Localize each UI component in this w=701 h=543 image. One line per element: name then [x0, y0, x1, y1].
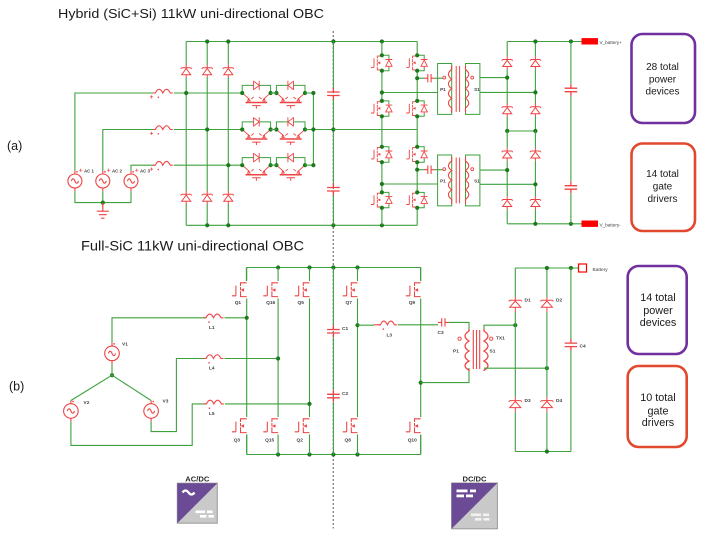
svg-text:14 total: 14 total — [646, 169, 679, 180]
dashed stage divider line — [332, 31, 334, 529]
svg-text:C2: C2 — [342, 391, 348, 397]
diode D4 — [540, 397, 553, 412]
capacitor C3 — [438, 318, 449, 326]
node top bus junctions b — [276, 265, 360, 269]
wire leg Q9/Q10 — [420, 268, 422, 455]
capacitor C1 — [327, 326, 340, 338]
transistor Q1 — [232, 283, 247, 297]
diode output B bottom — [530, 104, 541, 117]
wire output bottom bus b — [515, 451, 571, 453]
svg-text:C1: C1 — [342, 326, 348, 332]
svg-text:gate: gate — [653, 182, 673, 193]
node cell branch junctions — [380, 76, 420, 95]
transistor cell high-side right — [406, 56, 417, 70]
svg-text:Q5: Q5 — [298, 300, 305, 306]
wire phase C to modules — [174, 164, 242, 166]
capacitor DC link upper — [327, 88, 340, 100]
capacitor C2 — [327, 390, 340, 402]
wire rectifier leg 3 — [227, 42, 229, 226]
wire battery top bus — [515, 267, 578, 269]
wire top DC bus — [186, 41, 417, 43]
node bottom bus junctions — [205, 223, 384, 227]
wire DC midpoint rail — [333, 129, 417, 131]
transistor Q5 — [295, 283, 310, 297]
svg-text:L4: L4 — [209, 366, 215, 372]
wire rectifier leg 2 — [206, 42, 208, 226]
wire secondary top connection — [480, 77, 507, 79]
wire C4 leg — [570, 268, 572, 452]
annotation box 14 total gate drivers — [632, 144, 696, 232]
ac source AC 1 — [68, 171, 82, 192]
svg-text:AC 1: AC 1 — [84, 169, 95, 174]
node top bus junctions — [205, 39, 384, 43]
wire leg Q16/Q15 — [277, 268, 279, 455]
svg-text:Q1: Q1 — [235, 300, 242, 306]
transformer cell2 P1 S1 — [438, 155, 452, 206]
svg-text:D4: D4 — [556, 398, 562, 404]
svg-text:14 total: 14 total — [640, 292, 675, 304]
wire section-b bottom bus — [247, 435, 421, 455]
wire rect mid rail — [507, 130, 535, 132]
svg-text:V2: V2 — [84, 400, 90, 406]
node battery- junctions — [533, 222, 573, 226]
wire secondary bottom connection — [480, 183, 536, 185]
wire module outputs to DC midpoint — [305, 93, 333, 165]
inductor L4 — [204, 355, 224, 359]
capacitor DC link lower — [327, 184, 340, 196]
ac source AC 3 — [124, 171, 138, 192]
terminal Battery — [579, 264, 587, 272]
svg-text:P1: P1 — [453, 349, 459, 355]
wire TX1 secondary top — [484, 325, 515, 329]
wire star to V3 — [112, 375, 151, 400]
wire L5 to bridge — [225, 403, 310, 405]
svg-text:power: power — [649, 74, 677, 85]
annotation box 28 total power devices — [632, 34, 696, 123]
svg-text:V_battery-: V_battery- — [600, 222, 622, 227]
transformer TX1 — [465, 329, 469, 371]
wire bottom DC bus — [186, 224, 417, 226]
voltage source V3 — [144, 400, 159, 421]
svg-text:S1: S1 — [474, 87, 480, 92]
transistor Q3 — [232, 419, 247, 433]
svg-text:Q7: Q7 — [346, 300, 353, 306]
wire star to V2 — [71, 375, 112, 400]
wire cell right leg — [416, 130, 418, 226]
wire cell primary return — [382, 92, 438, 94]
node battery bus junctions — [545, 266, 573, 270]
transistor Q10 — [406, 419, 421, 433]
wire V_battery+ bus — [507, 41, 582, 43]
svg-text:Q2: Q2 — [297, 438, 304, 444]
transistor cell low-side right — [406, 193, 417, 207]
svg-text:D3: D3 — [525, 398, 531, 404]
wire output rect leg A — [506, 42, 508, 132]
svg-text:drivers: drivers — [642, 417, 675, 429]
svg-text:P1: P1 — [440, 87, 446, 92]
svg-text:S1: S1 — [474, 179, 480, 184]
inductor phase B — [153, 126, 173, 130]
icon AC/DC converter — [177, 483, 217, 523]
diode bridge leg2 top — [202, 65, 213, 78]
node DC midpoint — [331, 127, 335, 131]
wire leg Q1/Q3 — [246, 268, 248, 455]
transistor cell low-side left — [371, 102, 382, 116]
diode bridge leg1 top — [181, 65, 192, 78]
wire phase B to modules — [174, 129, 242, 131]
diode bridge leg3 top — [223, 65, 234, 78]
wire leg Q5/Q2 — [309, 268, 311, 455]
diode bridge leg1 bottom — [181, 191, 192, 204]
svg-text:AC/DC: AC/DC — [185, 474, 210, 483]
wire V2 to L5 — [71, 404, 206, 446]
capacitor cell series — [424, 166, 435, 174]
wire cell left leg — [381, 130, 383, 226]
transistor cell low-side left — [371, 193, 382, 207]
wire output rect leg A — [506, 131, 508, 224]
svg-text:D2: D2 — [556, 298, 562, 304]
icon DC/DC converter — [452, 483, 498, 529]
wire Q7 tap to L3 — [358, 324, 375, 326]
svg-text:Full-SiC 11kW uni-directional: Full-SiC 11kW uni-directional OBC — [81, 239, 304, 254]
wire C3 to TX1 primary — [449, 322, 469, 331]
wire cell primary return — [382, 183, 438, 185]
node cell branch junctions — [380, 168, 420, 187]
node secondary junctions — [505, 76, 537, 95]
svg-text:28 total: 28 total — [646, 62, 679, 73]
svg-text:Q3: Q3 — [234, 438, 241, 444]
svg-text:(a): (a) — [7, 139, 22, 153]
wire phase A to modules — [174, 92, 242, 94]
svg-text:Q15: Q15 — [265, 438, 274, 444]
svg-text:V_battery+: V_battery+ — [600, 40, 623, 45]
wire module row3 link — [271, 164, 277, 166]
svg-text:C4: C4 — [580, 344, 586, 350]
capacitor C4 — [565, 339, 578, 351]
node secondary junctions b — [513, 323, 549, 370]
voltage source V1 — [105, 343, 120, 364]
wire V1 to star — [111, 364, 113, 375]
igbt module row3 left — [242, 158, 270, 166]
wire TX1 primary return — [421, 368, 469, 383]
voltage source V2 — [64, 400, 79, 421]
svg-text:S1: S1 — [490, 349, 496, 355]
ground — [97, 203, 109, 219]
diode output B bottom — [530, 196, 541, 209]
svg-text:Q8: Q8 — [345, 438, 352, 444]
inductor phase A — [153, 89, 173, 93]
wire TX1 secondary bottom — [484, 367, 547, 369]
wire AC source neutral bus — [75, 191, 131, 202]
svg-text:devices: devices — [646, 87, 680, 98]
terminal V_battery- — [582, 221, 598, 226]
node output bottom junction — [545, 449, 549, 453]
svg-text:V3: V3 — [163, 399, 169, 405]
wire leg D1/D3 — [514, 268, 516, 452]
igbt module row3 right — [276, 158, 305, 166]
node neutral junction — [101, 201, 105, 205]
svg-text:AC 2: AC 2 — [112, 169, 123, 174]
svg-text:drivers: drivers — [647, 194, 677, 205]
svg-text:Q10: Q10 — [408, 438, 417, 444]
transistor cell high-side left — [371, 56, 382, 70]
svg-text:P1: P1 — [440, 179, 446, 184]
wire AC3 to phase C — [131, 165, 155, 171]
transistor cell high-side left — [371, 148, 382, 162]
wire V1 to L1 — [112, 318, 206, 343]
igbt module row1 left — [242, 85, 270, 93]
diode output B top — [530, 56, 541, 69]
transistor Q15 — [263, 419, 278, 433]
svg-text:D1: D1 — [525, 298, 531, 304]
transistor cell low-side right — [406, 102, 417, 116]
wire section-b top bus — [246, 268, 420, 282]
wire module row1 link — [271, 92, 277, 94]
svg-text:Q16: Q16 — [266, 300, 275, 306]
wire cell left leg — [381, 42, 383, 130]
capacitor output filter upper — [565, 84, 578, 96]
wire secondary top connection — [480, 169, 507, 171]
wire L4 to bridge — [225, 358, 279, 360]
capacitor output filter lower — [565, 182, 578, 194]
inductor phase C — [153, 161, 173, 165]
node star point — [110, 373, 114, 377]
wire output rect leg B — [534, 131, 536, 224]
wire output filter cap leg — [570, 42, 572, 224]
svg-text:AC 3: AC 3 — [140, 169, 151, 174]
wire leg D2/D4 — [546, 268, 548, 452]
svg-text:L1: L1 — [209, 325, 215, 331]
transistor Q16 — [263, 283, 278, 297]
wire secondary bottom connection — [480, 91, 536, 93]
wire AC1 to phase A — [75, 93, 155, 171]
transistor Q2 — [295, 419, 310, 433]
diode output B top — [530, 148, 541, 161]
inductor L1 — [204, 314, 224, 318]
igbt module row2 left — [242, 122, 270, 130]
wire rectifier leg 1 — [185, 42, 187, 226]
svg-text:gate: gate — [647, 405, 668, 417]
diode D1 — [509, 297, 522, 312]
svg-text:TX1: TX1 — [496, 336, 505, 342]
svg-text:Q9: Q9 — [409, 300, 416, 306]
svg-text:DC/DC: DC/DC — [462, 474, 487, 483]
transistor Q7 — [343, 283, 358, 297]
diode D3 — [509, 397, 522, 412]
diode output A top — [502, 148, 513, 161]
terminal V_battery+ — [582, 39, 598, 44]
wire leg Q7/Q8 — [357, 268, 359, 455]
wire V3 to L4 — [151, 359, 205, 432]
wire cell cap branch — [417, 77, 424, 79]
node secondary junctions — [505, 168, 537, 186]
svg-text:V1: V1 — [122, 342, 128, 348]
node module output junctions — [311, 91, 315, 167]
node rect mid junctions — [505, 129, 537, 133]
transistor Q8 — [343, 419, 358, 433]
wire cell cap branch — [417, 169, 424, 171]
svg-text:Battery: Battery — [593, 267, 609, 273]
igbt module row1 right — [276, 85, 305, 93]
wire cell right leg — [416, 42, 418, 130]
wire cell cap to transformer — [435, 77, 443, 79]
wire V_battery- bus — [507, 223, 582, 225]
diode output A top — [502, 56, 513, 69]
annotation box 10 total gate drivers — [628, 366, 687, 447]
wire AC2 to phase B — [103, 130, 155, 171]
node phase-leg junctions — [184, 91, 230, 167]
capacitor cell series — [424, 74, 435, 82]
transformer cell1 P1 S1 — [438, 64, 452, 115]
svg-text:devices: devices — [640, 317, 677, 329]
wire C1 C2 leg — [332, 268, 334, 455]
transistor cell high-side right — [406, 148, 417, 162]
inductor L3 — [378, 321, 397, 325]
svg-text:power: power — [643, 305, 673, 317]
svg-text:10 total: 10 total — [640, 392, 675, 404]
diode output A bottom — [502, 104, 513, 117]
wire L3 to C3 — [398, 324, 438, 326]
wire module row2 link — [271, 129, 277, 131]
node bottom bus junctions b — [276, 452, 360, 456]
svg-text:L3: L3 — [387, 333, 393, 339]
wire DC link cap leg — [332, 42, 334, 226]
wire cell cap to transformer — [435, 169, 443, 171]
node phase taps — [245, 316, 423, 406]
wire L1 to bridge — [225, 317, 247, 319]
node battery+ junctions — [533, 39, 573, 43]
ac source AC 2 — [96, 171, 110, 192]
polarity marks AC labels — [79, 169, 82, 172]
svg-text:C3: C3 — [438, 330, 444, 336]
wire output rect leg B — [534, 42, 536, 132]
diode bridge leg2 bottom — [202, 191, 213, 204]
diode output A bottom — [502, 196, 513, 209]
inductor L5 — [204, 400, 224, 404]
svg-text:L5: L5 — [209, 411, 215, 417]
diode bridge leg3 bottom — [223, 191, 234, 204]
svg-text:(b): (b) — [9, 379, 24, 393]
igbt module row2 right — [276, 122, 305, 130]
diode D2 — [540, 297, 553, 312]
annotation box 14 total power devices — [628, 266, 687, 354]
transistor Q9 — [406, 283, 421, 297]
svg-text:Hybrid (SiC+Si) 11kW uni-direc: Hybrid (SiC+Si) 11kW uni-directional OBC — [58, 6, 325, 21]
